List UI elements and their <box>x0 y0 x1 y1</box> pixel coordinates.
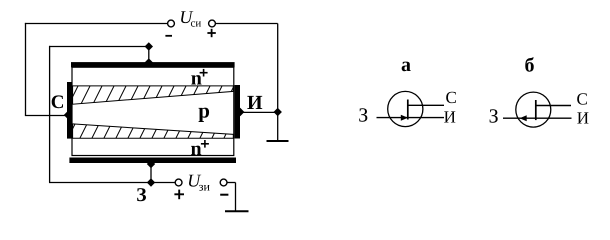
gate electrode bottom bar <box>69 158 236 164</box>
junction on top bar <box>145 58 153 66</box>
svg-text:С: С <box>577 90 588 109</box>
svg-text:p: p <box>198 99 210 123</box>
svg-text:И: И <box>444 108 456 127</box>
terminal circle U_zi left <box>175 179 182 186</box>
plus sign top <box>207 32 215 34</box>
junction right vertical wire <box>274 108 282 116</box>
I contact bar <box>235 85 241 139</box>
junction C contact <box>64 111 72 119</box>
symbol b channel bar <box>535 100 537 120</box>
depletion region top (hatched wedge) <box>66 82 236 110</box>
transistor symbol a: circle <box>388 91 423 126</box>
terminal circle U_si minus <box>168 20 175 27</box>
svg-text:И: И <box>247 92 263 114</box>
svg-text:си: си <box>191 18 202 30</box>
C contact bar <box>67 82 72 139</box>
terminal circle U_si plus <box>209 20 216 27</box>
ground bottom <box>225 210 249 212</box>
junction I contact <box>236 108 244 116</box>
svg-text:С: С <box>51 92 65 113</box>
wire I contact to right vertical <box>240 111 278 113</box>
depletion region bottom (hatched wedge) <box>66 114 236 142</box>
minus sign bottom <box>220 194 228 196</box>
symbol a arrow (points right) <box>401 115 408 121</box>
terminal circle U_zi right <box>220 179 227 186</box>
wire gate bottom horizontal <box>49 182 175 184</box>
gate electrode top bar <box>71 62 235 67</box>
svg-text:n: n <box>191 68 202 90</box>
symbol a drain lead <box>408 104 444 106</box>
wire right outer vertical <box>277 24 279 141</box>
svg-text:зи: зи <box>199 179 211 193</box>
wire left outer vertical <box>25 23 27 116</box>
symbol a channel bar <box>407 100 409 120</box>
wire top gate stub <box>148 47 150 64</box>
channel body rectangle <box>72 67 234 155</box>
svg-text:З: З <box>136 185 146 206</box>
plus sign bottom <box>174 193 184 195</box>
svg-text:С: С <box>446 88 457 107</box>
wire U_zi right to ground <box>227 182 236 184</box>
transistor symbol b: circle <box>516 92 551 127</box>
wire U_si plus to right <box>216 23 278 25</box>
wire gate top horizontal <box>49 46 149 48</box>
symbol b arrow (points left) <box>520 115 527 121</box>
symbol a gate-source line <box>377 117 445 119</box>
wire gate left vertical <box>49 46 51 183</box>
wire to C contact <box>25 115 68 117</box>
wire bottom gate stub <box>150 162 152 183</box>
symbol b drain lead <box>536 105 571 107</box>
minus sign top <box>165 35 172 37</box>
svg-text:n: n <box>191 138 202 160</box>
svg-text:З: З <box>358 104 368 126</box>
ground right <box>267 140 289 142</box>
junction bottom gate wire <box>147 178 155 186</box>
svg-text:З: З <box>489 105 499 127</box>
wire U_si minus to left <box>25 23 167 25</box>
junction under bottom bar <box>147 160 155 168</box>
symbol b gate-source line <box>503 117 572 119</box>
junction top gate wire <box>145 42 153 50</box>
svg-text:б: б <box>525 55 535 77</box>
svg-text:а: а <box>401 54 411 76</box>
svg-text:И: И <box>577 108 589 127</box>
